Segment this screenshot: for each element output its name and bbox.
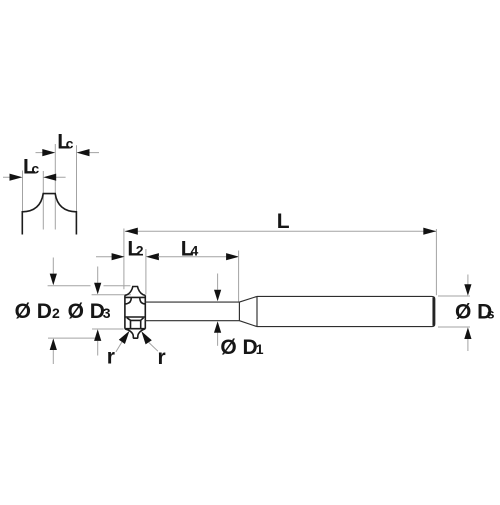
svg-text:2: 2 (136, 242, 144, 258)
svg-text:3: 3 (103, 305, 111, 321)
svg-text:4: 4 (191, 242, 199, 258)
svg-text:2: 2 (52, 305, 60, 321)
svg-text:Ø D: Ø D (15, 300, 52, 323)
svg-text:1: 1 (256, 341, 264, 357)
svg-text:Ø D: Ø D (220, 336, 257, 359)
svg-text:c: c (66, 136, 74, 152)
svg-text:Ø D: Ø D (68, 300, 105, 323)
svg-text:r: r (107, 346, 115, 369)
svg-text:r: r (158, 346, 166, 369)
svg-text:L: L (277, 210, 290, 233)
svg-text:s: s (487, 305, 495, 321)
svg-text:c: c (31, 161, 39, 177)
